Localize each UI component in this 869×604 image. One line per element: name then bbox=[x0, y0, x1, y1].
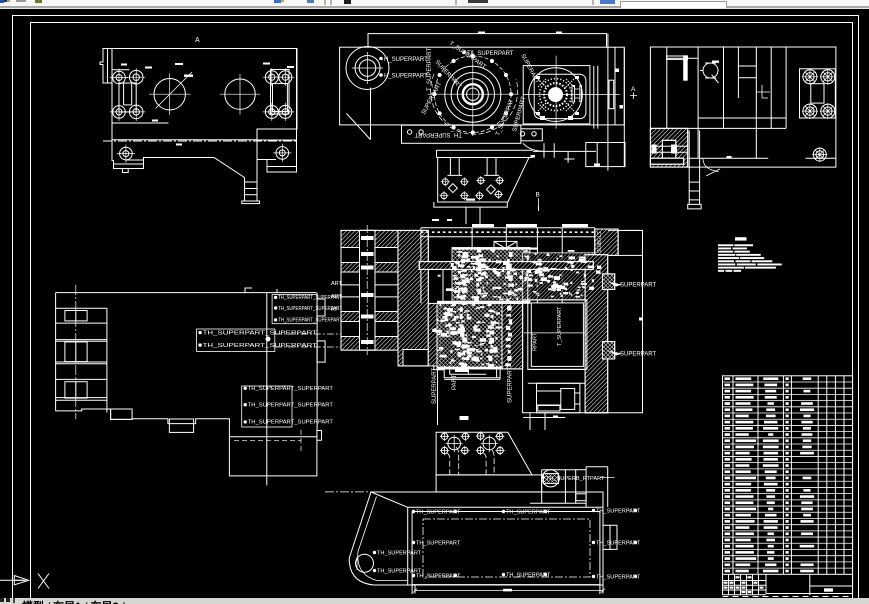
bottom right rect bbox=[229, 430, 317, 476]
svg-text:SUPERPART: SUPERPART bbox=[508, 367, 514, 403]
body label 3 bbox=[592, 509, 595, 512]
view E: left side profile view bbox=[56, 285, 326, 485]
svg-text:TH_SUPERPART: TH_SUPERPART bbox=[596, 541, 641, 547]
long vertical 2 bbox=[316, 293, 318, 430]
foot inner lines bbox=[114, 163, 144, 165]
stack shaft channel bbox=[360, 230, 376, 350]
bolt v4 bbox=[820, 103, 836, 119]
right housing top bbox=[595, 229, 618, 255]
leg rungs bbox=[245, 181, 258, 183]
stack hatched band 2 bbox=[341, 263, 398, 273]
bright gear columns bbox=[459, 247, 514, 369]
svg-text:TH_SUPERPART: TH_SUPERPART bbox=[416, 541, 461, 547]
bottom leg bbox=[689, 131, 699, 205]
left lobe boss bbox=[346, 47, 389, 90]
note line 7 bbox=[718, 264, 735, 266]
dashdot rect bbox=[423, 519, 590, 577]
view D: middle assembly section view bbox=[331, 224, 656, 430]
svg-text:TH_SUPERPART_SUPERPART: TH_SUPERPART_SUPERPART bbox=[248, 420, 334, 426]
single bolt bbox=[812, 147, 827, 162]
base plate bbox=[434, 202, 507, 207]
right bump bbox=[603, 525, 617, 549]
left gear stack outline bbox=[341, 230, 398, 350]
step structure below gears bbox=[434, 366, 500, 380]
nose hole flat bbox=[356, 557, 358, 570]
marker dot 1 bbox=[379, 57, 383, 61]
left channel lines bbox=[107, 49, 109, 84]
flange crosshair bbox=[523, 94, 620, 96]
svg-text:TH_SUPERPART_SUPERPART: TH_SUPERPART_SUPERPART bbox=[278, 295, 342, 301]
inner plate rect bbox=[408, 507, 603, 584]
bolt TR2 bbox=[276, 68, 294, 86]
connecting verticals to bottom view bbox=[438, 369, 546, 430]
bolt c4 bbox=[495, 176, 504, 185]
body label 8 bbox=[592, 575, 595, 578]
hatched square 1 bbox=[603, 274, 615, 290]
svg-text:PART: PART bbox=[452, 374, 458, 390]
right outer boundary bbox=[523, 230, 643, 412]
castellation right edge bbox=[106, 308, 108, 412]
svg-text:H_SUPERPART: H_SUPERPART bbox=[384, 74, 428, 80]
bolt c8 bbox=[494, 190, 503, 199]
right bolt connecting rect bbox=[271, 70, 290, 115]
bottom steps bbox=[689, 157, 836, 159]
outline bbox=[650, 47, 836, 167]
ucs arrowhead bbox=[14, 576, 28, 585]
dense bearing block C bbox=[523, 253, 600, 300]
center dash-dot line bbox=[103, 140, 297, 142]
bolt plate bbox=[436, 432, 532, 475]
slot channels bbox=[448, 158, 500, 176]
right foot outline bbox=[257, 140, 297, 172]
bolt c1 bbox=[441, 177, 450, 186]
technical notes block bbox=[718, 237, 782, 272]
hatched band overlay bbox=[419, 262, 593, 270]
top cap bbox=[368, 34, 607, 48]
bolt group frame bbox=[800, 69, 836, 118]
right edge upper rect bbox=[317, 299, 325, 316]
plate bolt s6 bbox=[460, 446, 469, 455]
svg-text:TH_SUPERPART: TH_SUPERPART bbox=[377, 551, 422, 557]
note line 2 bbox=[718, 248, 731, 250]
connector verticals B2 to D bbox=[466, 206, 539, 224]
big bore circle left bbox=[154, 79, 185, 110]
tooth slab 1 bbox=[56, 308, 107, 323]
label cluster 2 bbox=[197, 329, 275, 352]
cylinder hatch bbox=[544, 474, 559, 484]
flange center blob bbox=[548, 87, 563, 102]
right wall hatch bbox=[585, 255, 608, 413]
svg-text:TH_SUPERB_RTPART: TH_SUPERB_RTPART bbox=[546, 476, 605, 482]
plate outline bbox=[100, 49, 297, 202]
note line 6 bbox=[718, 260, 734, 262]
diamond d2 bbox=[486, 185, 495, 194]
foot bolt right bbox=[273, 144, 291, 162]
right lower rect bbox=[586, 143, 625, 167]
centerline to view E bbox=[325, 491, 436, 493]
main body outline bbox=[349, 492, 603, 585]
dense gear block A bbox=[452, 248, 530, 304]
ucs x-axis line bbox=[0, 579, 24, 581]
outer dashed arc bbox=[431, 74, 518, 134]
view F: bottom plate assembly bbox=[325, 431, 641, 594]
stack hatched band 1 bbox=[341, 230, 398, 247]
leader arrow 1 bbox=[608, 282, 622, 287]
leg foot bbox=[242, 201, 260, 204]
body label 9 bbox=[373, 551, 376, 554]
note line 8 bbox=[718, 267, 744, 269]
dim text bbox=[466, 199, 475, 201]
mid verticals below band bbox=[421, 269, 562, 303]
top edge ticks bbox=[245, 288, 277, 293]
motor box bbox=[537, 383, 580, 413]
svg-text:TH_SUPERPART_SUPERPART: TH_SUPERPART_SUPERPART bbox=[248, 403, 334, 409]
note line 3 bbox=[718, 251, 733, 253]
svg-text:RPART: RPART bbox=[533, 332, 539, 351]
plate bolt big 2 bbox=[481, 435, 498, 452]
rail dot texture bbox=[421, 231, 595, 233]
top edge bbox=[56, 292, 317, 294]
title block bbox=[723, 574, 853, 595]
bottom dim line bbox=[415, 590, 603, 592]
corner diagonal bbox=[371, 492, 408, 507]
svg-text:TH_SUPERPART: TH_SUPERPART bbox=[416, 510, 461, 516]
body outline bbox=[340, 47, 625, 125]
leader drops bbox=[447, 447, 494, 475]
plate bolt s7 bbox=[476, 446, 485, 455]
view B2: section B trapezoid below center view bbox=[434, 150, 540, 207]
tiny dims above D bbox=[432, 219, 452, 221]
cylinder block bbox=[530, 467, 608, 507]
notch pocket bbox=[169, 419, 193, 432]
bolt c2 bbox=[460, 177, 469, 186]
stack center line bbox=[366, 225, 368, 355]
cylinder circle bbox=[542, 470, 559, 487]
right edge small rects bbox=[317, 341, 325, 362]
bolt BR1 bbox=[263, 103, 281, 121]
svg-text:TH_SUPERPART: TH_SUPERPART bbox=[596, 575, 641, 581]
note line 5 bbox=[718, 257, 739, 259]
bottom dim verticals bbox=[412, 585, 603, 594]
base top step bbox=[112, 122, 169, 124]
B-view title bbox=[460, 416, 469, 420]
svg-text:A: A bbox=[195, 37, 200, 44]
bolt BL2 bbox=[127, 103, 145, 121]
UCS icon bbox=[0, 574, 49, 589]
foot bolt left bbox=[117, 145, 135, 163]
plate bolt big 1 bbox=[446, 435, 463, 452]
right flange square bbox=[523, 66, 590, 124]
shaft couplings bbox=[361, 236, 374, 344]
bolt v3 bbox=[802, 103, 818, 119]
top double rail bbox=[421, 228, 595, 237]
dashed inner bbox=[234, 430, 301, 452]
plate bottom edge bbox=[112, 139, 257, 141]
svg-text:B: B bbox=[536, 192, 540, 199]
foot bolt step left bbox=[126, 159, 144, 161]
flange side bars bbox=[572, 86, 575, 103]
ucs X label bbox=[38, 574, 49, 589]
housing wall hatch bbox=[398, 230, 428, 366]
trapezoid outline bbox=[438, 158, 529, 202]
svg-text:TH_SUPERPART_SUPERPART: TH_SUPERPART_SUPERPART bbox=[248, 386, 334, 392]
bolt hole strip bbox=[402, 125, 521, 143]
stack dividers bbox=[341, 248, 398, 337]
svg-text:TH_SUPERPART_SUPERPART: TH_SUPERPART_SUPERPART bbox=[203, 330, 318, 336]
flange bottom section bbox=[533, 143, 596, 163]
big bore circle right bbox=[225, 79, 255, 109]
plate bolt s8 bbox=[496, 446, 505, 455]
tab box bbox=[111, 409, 133, 419]
svg-text:SUPERPART: SUPERPART bbox=[620, 283, 656, 289]
vertical centerline bbox=[75, 285, 77, 419]
hatched square 2 bbox=[603, 342, 615, 359]
bolt c6 bbox=[460, 191, 469, 200]
marker dot 2 bbox=[379, 73, 383, 77]
long vertical 1 bbox=[266, 293, 268, 486]
svg-text:SL08GLS: SL08GLS bbox=[597, 231, 603, 253]
svg-text:T_SUPERPART: T_SUPERPART bbox=[557, 306, 563, 346]
nose hole bbox=[356, 554, 374, 572]
flange corner speckles bbox=[538, 79, 574, 111]
body label 6 bbox=[412, 574, 415, 577]
bolt ring dashed circle bbox=[435, 56, 512, 133]
gearbox inner rect bbox=[528, 300, 587, 370]
bottom tab under left foot bbox=[123, 169, 129, 173]
cyl label marker bbox=[541, 476, 544, 479]
left bolt connecting rect bbox=[119, 83, 136, 112]
tooth slab 3 bbox=[56, 379, 107, 400]
view C: top-right side view bbox=[650, 47, 836, 209]
cluster leader dashdots bbox=[275, 334, 341, 347]
note line 1 bbox=[718, 244, 733, 246]
bolt c3 bbox=[476, 176, 485, 185]
band bbox=[437, 150, 533, 157]
svg-text:H_SUPERPART: H_SUPERPART bbox=[384, 57, 428, 63]
small cross mark bbox=[756, 85, 770, 98]
svg-text:SUPERPART: SUPERPART bbox=[620, 352, 656, 358]
diamond d1 bbox=[448, 184, 457, 193]
note line 4 bbox=[718, 254, 735, 256]
plate bolt s3 bbox=[476, 431, 485, 440]
bolt TR1 bbox=[263, 68, 281, 86]
bolt BR2 bbox=[276, 103, 294, 121]
label cluster 3 bbox=[242, 386, 292, 427]
svg-text:TH_SUPERPART: TH_SUPERPART bbox=[416, 574, 461, 580]
svg-text:TH_SUPERPART: TH_SUPERPART bbox=[596, 509, 641, 515]
top hatched band bbox=[419, 262, 593, 270]
rect bump bbox=[317, 431, 322, 441]
bolt v2 bbox=[820, 69, 836, 85]
foot bolt step right bbox=[267, 159, 276, 161]
step band bbox=[436, 475, 541, 492]
lower center hatch bands bbox=[428, 303, 440, 366]
body label 1 bbox=[412, 510, 415, 513]
model/layout tab bar (cut off) bbox=[0, 598, 869, 604]
left body edge bbox=[55, 293, 57, 411]
bottom-left tab bbox=[403, 350, 428, 366]
svg-text:ART: ART bbox=[331, 281, 343, 287]
bolt ring bbox=[432, 54, 513, 135]
arm inner edge bbox=[358, 497, 408, 581]
block B border bbox=[437, 303, 502, 369]
bevel gear box bbox=[494, 241, 517, 255]
plate bolt s2 bbox=[461, 432, 470, 441]
plate bolt s4 bbox=[495, 432, 504, 441]
body label 10 bbox=[373, 569, 376, 572]
BOM parts table bbox=[723, 376, 853, 597]
body label 4 bbox=[412, 541, 415, 544]
dim ticks bbox=[413, 589, 605, 593]
tiny dim marks bbox=[121, 64, 127, 66]
extra bearing speckle right bbox=[513, 253, 601, 297]
svg-text:TH_SUPERPART_SUPERPART: TH_SUPERPART_SUPERPART bbox=[278, 306, 342, 312]
mid slab lines bbox=[56, 341, 107, 397]
view A: top-left plate top view bbox=[100, 37, 297, 204]
ucs arrow mid bbox=[14, 579, 26, 581]
body label 2 bbox=[502, 510, 505, 513]
gearbox centerline bbox=[524, 332, 588, 334]
wall tick bbox=[639, 318, 643, 321]
svg-text:TH_SUPERPART: TH_SUPERPART bbox=[506, 510, 551, 516]
svg-text:TH_SUPERPART: TH_SUPERPART bbox=[506, 573, 551, 579]
bolt c5 bbox=[440, 191, 449, 200]
note line 9 bbox=[718, 270, 724, 272]
dense gear block B bbox=[437, 303, 502, 369]
leader arrow 2 bbox=[608, 351, 622, 356]
bolt c7 bbox=[475, 191, 484, 200]
bolt TL2 bbox=[127, 68, 145, 86]
leg fillet to right bbox=[703, 159, 719, 172]
svg-text:A: A bbox=[631, 86, 636, 93]
horizontals bbox=[650, 58, 786, 128]
svg-text:TH_SUPERPART_SUPERPART: TH_SUPERPART_SUPERPART bbox=[203, 343, 318, 349]
body label 7 bbox=[502, 573, 505, 576]
body label 5 bbox=[592, 541, 595, 544]
motor pedestal bbox=[523, 406, 565, 418]
hatched corner block bbox=[650, 128, 687, 167]
strip under cyl bbox=[576, 494, 586, 501]
lobe skirt bbox=[347, 88, 371, 140]
bolt v1 bbox=[802, 69, 818, 85]
plate bolt s1 bbox=[440, 432, 449, 441]
top boss line bbox=[112, 69, 129, 71]
svg-text:T_SUPERPART: T_SUPERPART bbox=[427, 48, 433, 91]
svg-text:TH_SUPERPART_SUPERPART: TH_SUPERPART_SUPERPART bbox=[278, 318, 342, 324]
bottom profile bbox=[56, 409, 317, 437]
top bright bars bbox=[472, 224, 588, 227]
stack hatched band 4 bbox=[341, 337, 398, 351]
bolt BL1 bbox=[110, 103, 128, 121]
cyl label line bbox=[600, 476, 615, 478]
view B: top-center front view of spindle head bbox=[340, 32, 637, 171]
main gear circles bbox=[467, 88, 479, 100]
dim text bbox=[503, 589, 512, 592]
right column bbox=[594, 66, 598, 129]
toolbar strip (cut off) bbox=[0, 0, 869, 9]
label cluster 1 bbox=[197, 295, 343, 427]
svg-text:TH_SUPERPART: TH_SUPERPART bbox=[377, 569, 422, 575]
plate bolt s5 bbox=[440, 446, 449, 455]
vertical dividers bbox=[667, 47, 786, 158]
stack hatched band 3 bbox=[341, 312, 398, 322]
dense white clusters view D bbox=[432, 248, 587, 369]
bolt TL1 bbox=[110, 69, 128, 87]
label TL_SUPERPART top bbox=[462, 51, 466, 55]
knob feature bbox=[703, 63, 718, 78]
rail verticals bbox=[421, 228, 595, 262]
tooth slab 2 bbox=[56, 340, 107, 364]
white bar bbox=[683, 55, 688, 80]
